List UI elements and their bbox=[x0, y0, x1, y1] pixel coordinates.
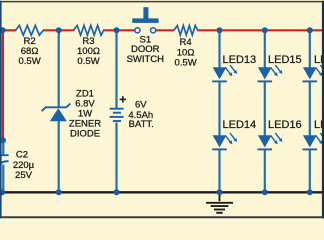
svg-text:DIODE: DIODE bbox=[70, 129, 100, 140]
wire: LED column 2 between LED15 and LED16 bbox=[264, 82, 266, 137]
wire: zener column from ZD1 to bottom rail bbox=[58, 121, 60, 193]
LED14 bbox=[212, 133, 237, 149]
zener diode ZD1 bbox=[42, 104, 71, 122]
wire: LED column 1 from LED14 to bottom rail bbox=[218, 150, 220, 193]
junction node: bottom rail at ground / LED column 1 bbox=[217, 189, 223, 195]
battery value label bbox=[128, 100, 153, 130]
junction node: top rail at battery column bbox=[114, 27, 120, 33]
wire: top rail segment R4 to right edge through LED columns bbox=[198, 29, 324, 31]
junction node: top rail left corner bbox=[0, 27, 6, 33]
resistor R4 bbox=[174, 26, 198, 36]
junction node: bottom rail at zener column bbox=[56, 189, 62, 195]
resistor R2 bbox=[16, 25, 44, 35]
ground bbox=[206, 193, 233, 212]
switch S1 right contact bbox=[151, 28, 156, 33]
LED17 bbox=[303, 65, 324, 81]
junction node: top rail at LED column 3 bbox=[307, 27, 313, 33]
wire: blue wire from capacitor C2 down to bottom rail bbox=[2, 165, 4, 193]
junction node: top rail at LED column 2 bbox=[262, 27, 268, 33]
wire: top positive rail segment from left corner to R2 bbox=[2, 29, 17, 31]
wire: left branch red wire down from top rail bbox=[2, 30, 4, 139]
svg-text:LED16: LED16 bbox=[268, 119, 302, 131]
border frame bottom margin strip bbox=[0, 218, 324, 221]
LED13 bbox=[212, 65, 237, 81]
battery B1 plates bbox=[110, 109, 124, 121]
border frame bottom edge bbox=[0, 216, 324, 218]
svg-text:LED14: LED14 bbox=[223, 119, 257, 131]
LED15 bbox=[258, 65, 283, 81]
capacitor C2 bbox=[0, 155, 9, 164]
junction node: bottom rail at LED column 3 bbox=[307, 189, 313, 195]
LED18 bbox=[303, 133, 324, 149]
wire: LED column 1 between LED13 and LED14 bbox=[218, 82, 220, 137]
resistor R3 bbox=[74, 25, 104, 35]
svg-text:BATT.: BATT. bbox=[129, 119, 154, 130]
switch S1 pushbutton actuator bbox=[132, 7, 158, 23]
svg-text:LED13: LED13 bbox=[223, 54, 257, 66]
wire: top rail segment R2 to R3 bbox=[43, 29, 74, 31]
wire: zener column from top rail to ZD1 bbox=[58, 30, 60, 106]
svg-text:SWITCH: SWITCH bbox=[127, 54, 165, 65]
wire: LED column 3 top rail to LED17 bbox=[309, 30, 311, 68]
svg-text:0.5W: 0.5W bbox=[19, 56, 41, 67]
junction node: top rail at zener column bbox=[56, 27, 62, 33]
wire: battery column from top rail to battery plus plate bbox=[115, 30, 117, 108]
wire: blue wire from left junction down to capacitor C2 bbox=[2, 141, 4, 155]
svg-text:25V: 25V bbox=[15, 170, 33, 181]
wire: LED column 2 top rail to LED15 bbox=[264, 30, 266, 68]
resistor R2 value label bbox=[19, 36, 41, 67]
wire: top rail segment R3 to switch S1 left contact bbox=[103, 29, 135, 31]
wire: top rail segment switch S1 right contact to R4 bbox=[156, 29, 175, 31]
junction node: bottom rail at battery column bbox=[114, 189, 120, 195]
wire: LED column 3 from LED18 to bottom rail bbox=[309, 150, 311, 193]
junction node: top rail at LED column 1 bbox=[217, 27, 223, 33]
border frame top edge bbox=[0, 1, 324, 3]
wire: bottom ground rail bbox=[1, 191, 324, 193]
wire: LED column 2 from LED16 to bottom rail bbox=[264, 150, 266, 193]
junction node: left branch above capacitor C2 bbox=[0, 137, 6, 143]
switch S1 label bbox=[127, 34, 165, 65]
border frame left edge bbox=[0, 1, 2, 219]
wire: LED column 3 between LED17 and LED18 bbox=[309, 82, 311, 137]
capacitor C2 value label bbox=[13, 150, 35, 181]
border frame right edge bbox=[322, 1, 324, 219]
LED16 bbox=[258, 133, 283, 149]
battery plus polarity mark bbox=[120, 96, 126, 102]
junction node: bottom rail at LED column 2 bbox=[262, 189, 268, 195]
wire: battery column from battery minus plate to bottom rail bbox=[115, 123, 117, 193]
wire: LED column 1 top rail to LED13 bbox=[218, 30, 220, 68]
resistor R3 value label bbox=[77, 36, 100, 67]
junction node: bottom rail left corner bbox=[0, 189, 5, 195]
zener diode ZD1 value label bbox=[69, 89, 101, 140]
switch S1 left contact bbox=[135, 28, 140, 33]
svg-text:LED15: LED15 bbox=[268, 54, 302, 66]
svg-text:0.5W: 0.5W bbox=[77, 56, 99, 67]
resistor R4 value label bbox=[175, 37, 197, 68]
svg-text:0.5W: 0.5W bbox=[175, 57, 197, 68]
